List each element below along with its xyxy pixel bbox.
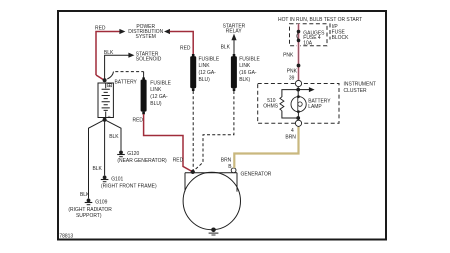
- junction node bottom of cluster: [296, 116, 300, 120]
- svg-text:FUSIBLE: FUSIBLE: [239, 56, 260, 62]
- wire RED from power distribution arrow to fusible link F1: [170, 32, 194, 55]
- battery B1: [98, 83, 113, 118]
- wire BLK battery to starter solenoid: [105, 55, 129, 80]
- svg-text:(NEAR GENERATOR): (NEAR GENERATOR): [117, 158, 166, 164]
- label I/P FUSE BLOCK with bracket: [329, 23, 331, 39]
- svg-text:(12 GA-: (12 GA-: [199, 70, 217, 76]
- wire from connector to cluster junction: [297, 87, 299, 97]
- junction battery negative node: [103, 118, 107, 122]
- svg-text:39: 39: [289, 75, 295, 81]
- wire BLK battery negative to G120: [105, 120, 121, 151]
- svg-text:4: 4: [291, 128, 294, 134]
- ground G109: [85, 199, 93, 205]
- generator GEN1: [183, 172, 240, 229]
- resistor R1 510 ohms: [280, 97, 284, 111]
- svg-text:SOLENOID: SOLENOID: [136, 56, 162, 62]
- wire dashed from fusible link F1 to generator BAT node: [192, 91, 194, 171]
- svg-text:FUSIBLE: FUSIBLE: [150, 80, 171, 86]
- instrument cluster dashed box: [258, 84, 339, 124]
- wire BRN from instrument cluster to generator terminal B: [234, 127, 298, 168]
- svg-text:G120: G120: [127, 151, 139, 157]
- wire BLK battery negative to G101: [104, 120, 106, 176]
- svg-text:BRN: BRN: [221, 157, 232, 163]
- junction battery positive node: [103, 78, 107, 82]
- svg-text:OHMS: OHMS: [263, 103, 278, 109]
- wire BLK battery negative to G109: [89, 120, 105, 199]
- svg-text:PNK: PNK: [287, 68, 298, 74]
- fusible link F3 (12 GA-BLU): [141, 77, 147, 114]
- svg-text:BLK: BLK: [80, 192, 90, 198]
- svg-text:(RIGHT FRONT FRAME): (RIGHT FRONT FRAME): [101, 183, 157, 189]
- svg-text:G101: G101: [111, 176, 123, 182]
- fusible link F2 (16 GA-BLK): [231, 54, 237, 91]
- svg-text:BLK: BLK: [221, 44, 231, 50]
- I/P fuse block dashed box: [290, 24, 328, 46]
- junction node in cluster: [296, 88, 300, 92]
- ground G101: [101, 176, 109, 182]
- svg-text:BRN: BRN: [285, 134, 296, 140]
- wire RED from fusible link F3 to generator BAT node: [144, 114, 193, 172]
- svg-text:RED: RED: [95, 25, 106, 31]
- node generator BAT junction: [191, 170, 195, 174]
- wire RED main feed vertical+horizontal to power distribution: [96, 32, 120, 76]
- svg-text:BLK: BLK: [104, 50, 114, 56]
- svg-text:BATTERY: BATTERY: [115, 79, 138, 85]
- svg-text:BLK: BLK: [109, 134, 119, 140]
- svg-text:BLU): BLU): [199, 77, 210, 83]
- lamp BATTERY LAMP: [291, 95, 306, 113]
- wire BLK starter relay to fusible link F2: [233, 40, 235, 55]
- wire resistor bottom to junction: [282, 111, 298, 118]
- svg-text:LINK: LINK: [150, 87, 161, 93]
- svg-text:RED: RED: [180, 45, 191, 51]
- ground G120: [117, 151, 125, 157]
- svg-text:FUSIBLE: FUSIBLE: [199, 56, 220, 62]
- arrow to power distribution system: [119, 29, 125, 34]
- terminal B of generator: [231, 168, 236, 173]
- arrow to other cluster circuits: [298, 89, 309, 91]
- svg-text:LAMP: LAMP: [308, 104, 322, 110]
- svg-text:BLOCK: BLOCK: [332, 35, 349, 41]
- svg-text:G109: G109: [95, 199, 107, 205]
- connector pin at cluster top: [295, 80, 301, 86]
- wire dashed from fusible link F2 to generator BAT node: [193, 91, 234, 171]
- svg-text:LINK: LINK: [199, 63, 210, 69]
- svg-text:SUPPORT): SUPPORT): [76, 213, 102, 219]
- fuse GAUGES FUSE 4 10A: [297, 30, 301, 43]
- svg-text:PNK: PNK: [283, 52, 294, 58]
- wire dashed feed to fusible link F3: [115, 71, 143, 73]
- svg-text:RED: RED: [173, 157, 184, 163]
- svg-text:BLK): BLK): [239, 77, 250, 83]
- arrow from right feed into power distribution system: [164, 29, 170, 34]
- ground generator case: [209, 228, 219, 236]
- svg-text:LINK: LINK: [239, 63, 250, 69]
- svg-text:10A: 10A: [303, 40, 312, 46]
- svg-text:CLUSTER: CLUSTER: [344, 88, 367, 94]
- svg-text:HOT IN RUN, BULB TEST OR START: HOT IN RUN, BULB TEST OR START: [278, 17, 363, 23]
- wire stub into fusible link F3: [143, 72, 145, 78]
- wire lamp bottom to junction: [297, 112, 299, 121]
- wire curve from battery top to dashed link feed: [107, 72, 113, 79]
- splice node on PNK wire: [297, 64, 301, 68]
- svg-text:BLU): BLU): [150, 101, 161, 107]
- svg-text:RED: RED: [133, 117, 144, 123]
- wire to resistor branch: [282, 90, 298, 97]
- fusible link F1 (12 GA-BLU): [190, 54, 196, 91]
- svg-text:(12 GA-: (12 GA-: [150, 94, 168, 100]
- svg-text:BLK: BLK: [93, 166, 103, 172]
- svg-text:B: B: [228, 164, 232, 170]
- diagram border frame: [58, 11, 386, 240]
- connector pin 4 at cluster bottom: [295, 120, 301, 126]
- svg-text:(16 GA-: (16 GA-: [239, 70, 257, 76]
- svg-text:RELAY: RELAY: [226, 28, 242, 34]
- arrow to starter solenoid: [128, 53, 134, 58]
- svg-text:78813: 78813: [59, 233, 73, 239]
- wire PNK from fuse block to instrument cluster connector: [297, 24, 300, 81]
- wire RED diagonal into battery positive junction: [96, 75, 104, 80]
- svg-text:GENERATOR: GENERATOR: [241, 171, 272, 177]
- svg-text:SYSTEM: SYSTEM: [136, 34, 156, 40]
- arrow up to starter relay: [231, 34, 236, 41]
